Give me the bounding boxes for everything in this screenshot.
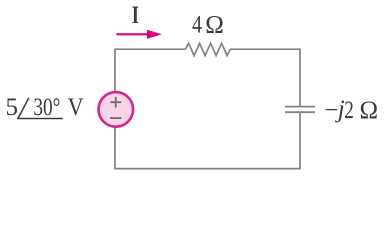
current arrowhead — [147, 30, 162, 39]
svg-text:V: V — [68, 94, 84, 121]
current arrow — [116, 33, 149, 35]
svg-text:Ω: Ω — [360, 97, 379, 124]
wire right-bottom segment — [115, 113, 300, 169]
wire top-left segment — [115, 49, 185, 91]
svg-text:Ω: Ω — [205, 12, 224, 39]
svg-text:2: 2 — [344, 97, 354, 124]
resistor 4ohm zigzag — [185, 43, 230, 55]
svg-text:−: − — [324, 97, 338, 124]
angle symbol diagonal — [18, 98, 29, 119]
svg-text:I: I — [132, 2, 139, 29]
capacitor top plate — [285, 106, 315, 108]
wire top-right segment — [230, 49, 300, 106]
voltage source circle — [99, 92, 134, 127]
angle symbol underline — [17, 118, 63, 120]
svg-text:30°: 30° — [33, 94, 60, 121]
plus sign inside source — [110, 97, 121, 108]
minus sign inside source — [110, 117, 121, 119]
svg-text:4: 4 — [192, 12, 202, 39]
capacitor bottom plate — [285, 111, 315, 113]
svg-text:5: 5 — [6, 94, 19, 121]
